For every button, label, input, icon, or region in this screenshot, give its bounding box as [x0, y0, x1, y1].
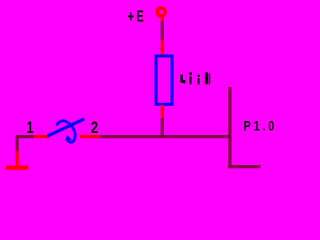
- wire pin stub horizontal: [228, 165, 260, 168]
- switch SA1 lever: [49, 120, 84, 136]
- wire red into resistor top: [161, 40, 164, 55]
- switch arrow head: [65, 135, 72, 141]
- wire left horizontal from corner to contact 1: [16, 135, 34, 138]
- wire red from resistor bottom: [161, 105, 164, 118]
- node +E terminal ring: [157, 8, 165, 16]
- left terminal vertical dark wire: [16, 135, 19, 151]
- resistor value label: [180, 72, 210, 84]
- label P1.0: [244, 118, 278, 134]
- label 2: [91, 119, 98, 138]
- wire dark segment below terminal: [161, 21, 164, 40]
- svg-text:1: 1: [26, 119, 34, 138]
- svg-text:P1.0: P1.0: [244, 118, 278, 134]
- left terminal red bar: [6, 166, 28, 170]
- svg-text:+E: +E: [128, 8, 147, 25]
- switch action arrow: [57, 121, 75, 143]
- contact 2 red segment: [80, 135, 100, 138]
- wire red from +E terminal down: [161, 17, 164, 22]
- resistor R1 body: [156, 56, 172, 104]
- label 1: [26, 119, 34, 138]
- contact 1 red segment: [33, 135, 50, 138]
- svg-text:2: 2: [91, 119, 98, 138]
- wire right vertical to pin: [228, 87, 231, 168]
- wire dark down to junction: [161, 118, 164, 138]
- label +E: [128, 8, 147, 25]
- left terminal vertical red wire: [16, 151, 19, 166]
- wire main horizontal to right vertical: [100, 135, 232, 138]
